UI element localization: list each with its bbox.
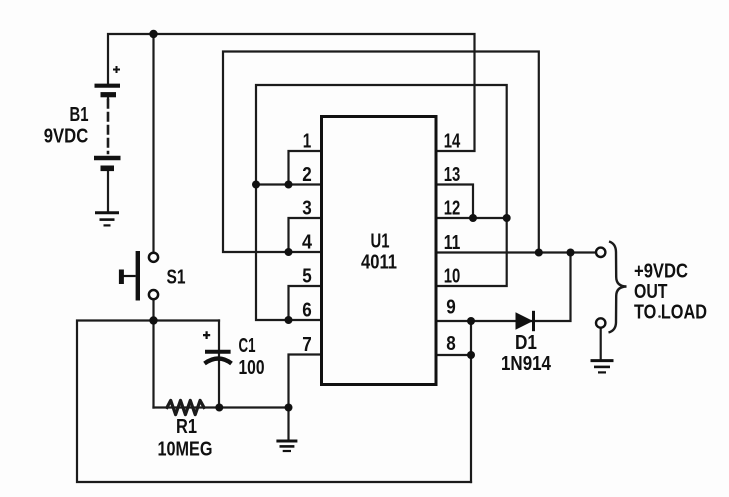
svg-text:D1: D1 <box>515 332 537 354</box>
svg-text:9: 9 <box>446 297 456 319</box>
svg-text:B1: B1 <box>70 104 89 126</box>
svg-text:7: 7 <box>302 334 312 356</box>
svg-text:100: 100 <box>239 357 265 379</box>
svg-text:12: 12 <box>444 198 461 220</box>
svg-text:3: 3 <box>302 198 312 220</box>
svg-text:R1: R1 <box>176 416 197 438</box>
svg-text:TO LOAD: TO LOAD <box>634 302 707 324</box>
svg-text:11: 11 <box>444 232 461 254</box>
svg-text:14: 14 <box>444 131 461 153</box>
svg-text:C1: C1 <box>239 335 256 357</box>
svg-text:13: 13 <box>444 164 461 186</box>
svg-text:10MEG: 10MEG <box>158 439 213 461</box>
svg-text:U1: U1 <box>371 231 390 253</box>
svg-text:4: 4 <box>302 232 313 254</box>
svg-text:OUT: OUT <box>634 281 668 303</box>
svg-text:1N914: 1N914 <box>501 353 552 375</box>
svg-text:2: 2 <box>302 164 312 186</box>
svg-text:1: 1 <box>303 131 312 153</box>
svg-text:8: 8 <box>446 333 456 355</box>
svg-text:9VDC: 9VDC <box>44 126 89 148</box>
svg-text:10: 10 <box>444 266 461 288</box>
svg-text:6: 6 <box>302 300 312 322</box>
svg-text:+9VDC: +9VDC <box>634 261 688 283</box>
svg-text:5: 5 <box>302 266 312 288</box>
svg-text:4011: 4011 <box>361 252 397 274</box>
svg-text:S1: S1 <box>167 267 186 289</box>
